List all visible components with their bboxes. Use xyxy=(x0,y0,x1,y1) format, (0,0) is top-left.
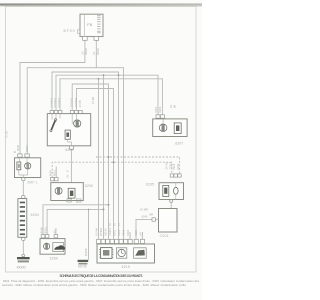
svg-text:6V: 6V xyxy=(108,223,112,226)
wire H4: 6200 pin2 across to 6207 pin1 xyxy=(56,75,158,115)
svg-text:6000B: 6000B xyxy=(84,248,88,256)
diagram frame xyxy=(6,7,197,273)
wire: connector 6800 to ground M000 xyxy=(22,241,24,255)
dashed link D1 to 6265 pin3 xyxy=(96,157,180,174)
wire H5: 6200 pin3 across to 6207 pin2 xyxy=(60,79,162,115)
svg-text:2V 6004: 2V 6004 xyxy=(74,97,78,107)
wire branch x=98.5 xyxy=(98,79,100,240)
wire H3: 6200 pin1 up and across to vertical x=118.5 xyxy=(52,72,119,239)
svg-text:6011: 6011 xyxy=(113,229,117,235)
boot lock motor 6260 xyxy=(40,239,65,255)
svg-text:6004: 6004 xyxy=(126,229,130,235)
junction wire Hb1 at x=108.5 xyxy=(108,204,110,206)
svg-text:6250: 6250 xyxy=(85,184,93,188)
junction on wire H5 at x=98.5 xyxy=(98,78,100,80)
junction on wire H4 at x=103.5 xyxy=(103,74,105,76)
rear lock motor 6250 xyxy=(51,183,84,202)
svg-text:6245: 6245 xyxy=(142,215,148,219)
BSI pin row xyxy=(97,239,145,243)
wire: 6265 bottom pin to C001 xyxy=(170,203,172,209)
svg-text:2V 4G: 2V 4G xyxy=(165,162,169,169)
node labels above 6200 pins xyxy=(50,97,96,108)
wire: ground branch to MC45 xyxy=(88,209,90,259)
svg-text:MR: MR xyxy=(149,213,153,217)
svg-text:2V 6002: 2V 6002 xyxy=(70,97,74,107)
svg-text:6V MR: 6V MR xyxy=(140,208,148,212)
junction wire Hb2 at x=103.5 xyxy=(103,208,105,210)
svg-text:BG02: BG02 xyxy=(96,48,100,55)
svg-text:2V: 2V xyxy=(117,223,121,226)
svg-text:MG10: MG10 xyxy=(104,228,108,236)
locking computer 6215 xyxy=(97,244,155,263)
svg-text:6260: 6260 xyxy=(50,256,58,260)
svg-text:E: E xyxy=(66,170,70,172)
wire: 6214 bottom pin to connector 6800 xyxy=(22,181,24,196)
wire stub pin row 8 xyxy=(129,232,131,239)
wire labels under fuse pins xyxy=(81,48,100,55)
svg-text:F8: F8 xyxy=(87,22,92,27)
svg-text:SCHEMA ELECTRIQUE DE LA CONDAM: SCHEMA ELECTRIQUE DE LA CONDAMNATION DES… xyxy=(60,274,143,278)
diagnostic socket C001 xyxy=(149,209,177,233)
svg-text:6002: 6002 xyxy=(122,229,126,235)
6200 bottom pin xyxy=(69,146,73,149)
svg-text:6V M4: 6V M4 xyxy=(95,228,99,236)
interconnector 6800 xyxy=(18,195,27,240)
wire: 6200 bottom pin down to 6250 top xyxy=(70,149,72,182)
svg-text:ouvrants - 6240. Moteur condam: ouvrants - 6240. Moteur condamnation por… xyxy=(2,283,187,287)
rear right lock motor 6265 xyxy=(159,183,184,200)
svg-text:2V: 2V xyxy=(113,223,117,226)
wire B: fuse right pin bus to 6214 pin2 and vertical x=123.5 xyxy=(27,40,123,239)
svg-text:6207: 6207 xyxy=(175,141,183,145)
svg-text:6000: 6000 xyxy=(49,170,53,176)
svg-text:C6212: C6212 xyxy=(108,227,112,235)
svg-text:BE02: BE02 xyxy=(25,145,29,152)
svg-text:MC45: MC45 xyxy=(78,265,87,269)
svg-text:C0212: C0212 xyxy=(168,161,172,169)
svg-text:2V: 2V xyxy=(92,51,96,54)
svg-text:2V: 2V xyxy=(81,51,85,54)
svg-text:6203: 6203 xyxy=(176,163,180,169)
wire stub 6250 pin2 xyxy=(55,167,57,178)
ground MC45 xyxy=(78,248,89,268)
resistor xyxy=(65,130,70,139)
svg-text:6204: 6204 xyxy=(158,106,162,112)
svg-text:6V13: 6V13 xyxy=(43,227,47,234)
svg-text:2V: 2V xyxy=(52,230,56,233)
svg-text:6201: 6201 xyxy=(154,106,158,112)
node labels above 6214 pins xyxy=(13,144,29,153)
node labels above 6250 xyxy=(49,170,70,178)
wire Hb2: 6260 pin2 up across to vertical x=103.5 xyxy=(47,209,103,234)
svg-text:6209: 6209 xyxy=(134,229,138,235)
svg-text:6MF 1: 6MF 1 xyxy=(28,181,38,185)
chip icon xyxy=(101,248,112,259)
car icon xyxy=(54,245,65,250)
wire H7: 6200 pin5 across to vertical x=113.5 xyxy=(76,89,113,240)
svg-text:6013: 6013 xyxy=(117,229,121,235)
6214 bottom pin xyxy=(22,178,26,181)
wire Hb1: 6260 pin1 up across to vertical x=108.5 xyxy=(43,205,109,235)
6250 pins xyxy=(50,178,54,181)
svg-text:6V40: 6V40 xyxy=(39,227,43,234)
junction dashed D2 at x=113.5 xyxy=(113,161,115,163)
wire H6: 6200 pin4 across to vertical x=108.5 xyxy=(72,84,108,239)
svg-text:0004. Prise de diagnostic - 62: 0004. Prise de diagnostic - 6200. Ensemb… xyxy=(3,279,200,283)
svg-text:6800: 6800 xyxy=(31,213,40,217)
svg-text:6040: 6040 xyxy=(16,144,20,150)
svg-text:2V 6011: 2V 6011 xyxy=(53,97,57,107)
wire stub 6260 pin3 xyxy=(55,228,57,235)
node labels above 6265 pins xyxy=(165,161,180,169)
svg-text:M000: M000 xyxy=(17,266,26,270)
svg-text:2V 6010: 2V 6010 xyxy=(50,97,54,107)
lock assembly 6200 xyxy=(47,114,90,146)
wire stub pin row 9 xyxy=(141,232,143,239)
6214 pins xyxy=(18,154,22,157)
svg-text:2V: 2V xyxy=(66,174,70,177)
svg-text:6215: 6215 xyxy=(122,265,131,269)
svg-text:6265: 6265 xyxy=(146,183,154,187)
svg-text:BF00: BF00 xyxy=(64,29,76,33)
6200 pins xyxy=(50,110,82,113)
svg-text:6200: 6200 xyxy=(65,148,73,152)
page top scan band xyxy=(0,3,202,5)
svg-text:2V 6B: 2V 6B xyxy=(5,131,9,138)
6207 pins xyxy=(156,115,160,118)
wire: C001 feed from pin row xyxy=(136,219,152,239)
switch contact xyxy=(50,130,52,132)
svg-text:6B: 6B xyxy=(172,105,176,108)
6265 bottom pin xyxy=(170,200,173,203)
svg-text:2V 6013: 2V 6013 xyxy=(57,97,61,107)
svg-text:6013: 6013 xyxy=(53,170,57,176)
6260 pins xyxy=(41,235,57,238)
front lock motor 6214 xyxy=(15,157,41,178)
wire branch x=103.5 xyxy=(103,75,105,239)
svg-text:2V 6B: 2V 6B xyxy=(78,100,82,107)
svg-text:A4: A4 xyxy=(139,232,143,236)
node labels above 6260 xyxy=(39,227,56,234)
svg-text:2V 6B: 2V 6B xyxy=(91,97,95,104)
fuse pin left xyxy=(83,37,88,41)
svg-text:C001: C001 xyxy=(160,234,169,238)
junction ground branch at x=88.5 xyxy=(88,209,90,211)
node labels above BSI pin row xyxy=(95,227,143,235)
door icon xyxy=(134,248,147,258)
motor M xyxy=(74,120,81,127)
svg-text:BY600: BY600 xyxy=(99,227,103,235)
node labels above 6207 pins xyxy=(154,105,176,113)
front right lock 6207 xyxy=(153,119,187,137)
fuse box PSF1 xyxy=(78,14,103,36)
clock icon xyxy=(116,248,126,258)
svg-text:BE02: BE02 xyxy=(84,48,88,55)
wire A: fuse left pin to 6214 pin1 xyxy=(20,40,85,154)
junction on wire H4 at x=118.5 xyxy=(118,74,120,76)
ground M000 xyxy=(17,254,30,269)
junction dashed D1 at x=108.5 xyxy=(108,156,110,158)
6265 pins xyxy=(170,174,181,177)
fuse pin right xyxy=(94,37,99,41)
dashed link D2: 6250 pin1 to 6265 pin1 xyxy=(52,162,172,177)
svg-text:6202: 6202 xyxy=(172,163,176,169)
svg-text:2V: 2V xyxy=(169,105,173,108)
